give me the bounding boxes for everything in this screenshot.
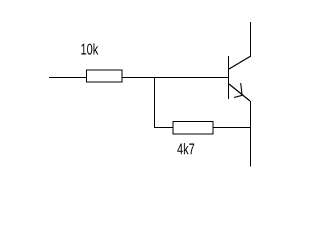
- transistor Q1 emitter diagonal: [229, 84, 250, 101]
- wire: resistor R1 to transistor base bar: [122, 77, 229, 79]
- label: 4k7 value: [177, 143, 194, 154]
- transistor Q1 base bar: [228, 56, 230, 99]
- wire: collector lead vertical: [250, 22, 252, 57]
- transistor Q1 emitter arrow barb lower: [234, 95, 242, 97]
- node A: junction drop from base wire: [154, 77, 156, 128]
- label: 10k value: [81, 43, 98, 54]
- resistor R2 body (4k7): [173, 122, 213, 135]
- wire: base input wire left segment: [49, 77, 87, 79]
- wire: node A to resistor R2: [154, 127, 173, 129]
- transistor Q1 emitter arrow barb upper: [241, 83, 242, 95]
- wire: emitter lead vertical: [250, 101, 252, 167]
- resistor R1 body (10k): [87, 70, 123, 82]
- wire: resistor R2 to emitter line: [213, 127, 250, 129]
- transistor Q1 collector diagonal: [229, 57, 250, 70]
